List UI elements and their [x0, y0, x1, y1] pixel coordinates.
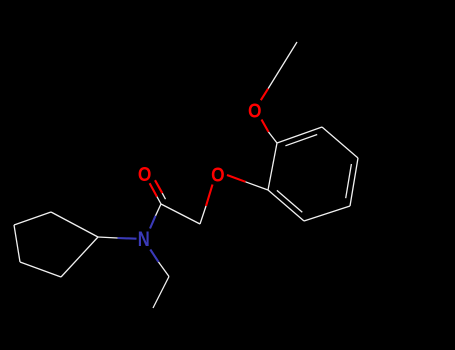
benzene inner double line C3-C4	[346, 164, 352, 198]
bond O1-CH3 methoxy methyl (red half)	[261, 89, 268, 101]
carbonyl C=O double bond line 1 (red part)	[150, 183, 157, 197]
carbonyl C=O double bond line 2 (white tip)	[162, 193, 165, 199]
bond O1-C1 aryl (red half)	[262, 120, 269, 133]
bond CH2-C(=O)	[161, 204, 200, 224]
bond O1-C1 aryl (white half)	[269, 132, 278, 143]
benzene ring edge C2-C3	[322, 127, 358, 158]
cyclopentane edge P5-P1	[61, 237, 98, 277]
bond O1-CH3 methoxy methyl (white half)	[268, 42, 297, 89]
benzene ring edge C3-C4	[350, 158, 358, 206]
bond C(=O)-N (blue half)	[150, 216, 156, 229]
benzene ring edge C1-C2	[277, 127, 322, 143]
bond C(=O)-N (white half)	[156, 204, 162, 216]
bond O2-CH2 (red half)	[206, 185, 213, 207]
benzene ring edge C6-C1	[268, 143, 277, 190]
benzene inner double line C1-C2	[285, 135, 317, 146]
bond N-ethyl CH2 (blue half)	[150, 250, 158, 263]
svg-text:O: O	[248, 99, 262, 122]
bond N-ethyl CH2 (white half)	[159, 262, 170, 277]
benzene ring edge C4-C5	[304, 206, 350, 221]
svg-text:O: O	[211, 164, 225, 187]
bond O2-C6 ether to ring (red half)	[227, 175, 246, 182]
benzene inner double line C5-C6	[277, 190, 302, 212]
carbonyl C=O double bond line 1 (white tip)	[157, 197, 161, 204]
bond N-cyclopentyl (blue half)	[118, 237, 137, 240]
bond O2-CH2 (white half)	[200, 206, 206, 224]
bond N-cyclopentyl (white half)	[98, 237, 118, 238]
cyclopentane edge P1-P2	[51, 212, 98, 237]
bond O2-C6 ether to ring (white half)	[246, 182, 269, 190]
cyclopentane edge P2-P3	[14, 212, 51, 225]
cyclopentane edge P3-P4	[14, 225, 20, 262]
bond ethyl CH2-CH3	[153, 277, 169, 309]
benzene ring edge C5-C6	[268, 190, 304, 221]
svg-text:O: O	[138, 163, 152, 186]
svg-text:N: N	[138, 228, 150, 251]
carbonyl C=O double bond line 2 (red part)	[155, 180, 162, 193]
cyclopentane edge P4-P5	[20, 262, 61, 277]
